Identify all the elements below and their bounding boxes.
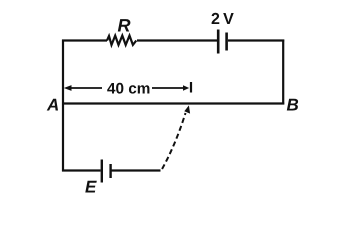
dimension arrow 40 cm: right arrowhead [183,85,189,91]
battery E: left plate (long) [101,160,103,183]
wire: bottom horizontal, left segment [62,169,101,171]
wire: top horizontal, middle segment [137,39,217,41]
dashed jockey lead from bottom wire to wire AB [162,113,186,170]
wire: right vertical [282,40,284,105]
wire: middle potentiometer wire A-B [62,102,284,104]
dimension arrow 40 cm: end tick [190,82,192,93]
label E [85,181,97,193]
battery E: right plate (short) [109,164,111,178]
label R [118,19,131,31]
wire: top horizontal, right segment [228,39,284,41]
dimension arrow 40 cm: left shaft [70,87,102,89]
node A label [47,99,58,111]
label 2 V [212,13,234,24]
dimension arrow 40 cm: right shaft [152,87,184,89]
dimension arrow 40 cm: left arrowhead [64,85,72,91]
cell 2V: left plate (long) [217,30,220,54]
dimension label 40 cm [107,83,149,94]
resistor R [107,36,136,45]
cell 2V: right plate (short) [225,33,228,51]
dashed jockey arrowhead at wire AB [184,105,190,113]
node B label [287,99,298,111]
wire: bottom horizontal, right segment [112,169,161,171]
wire: left vertical (top-left corner down to bottom wire) [62,40,64,172]
wire: top horizontal, left segment [62,39,107,41]
